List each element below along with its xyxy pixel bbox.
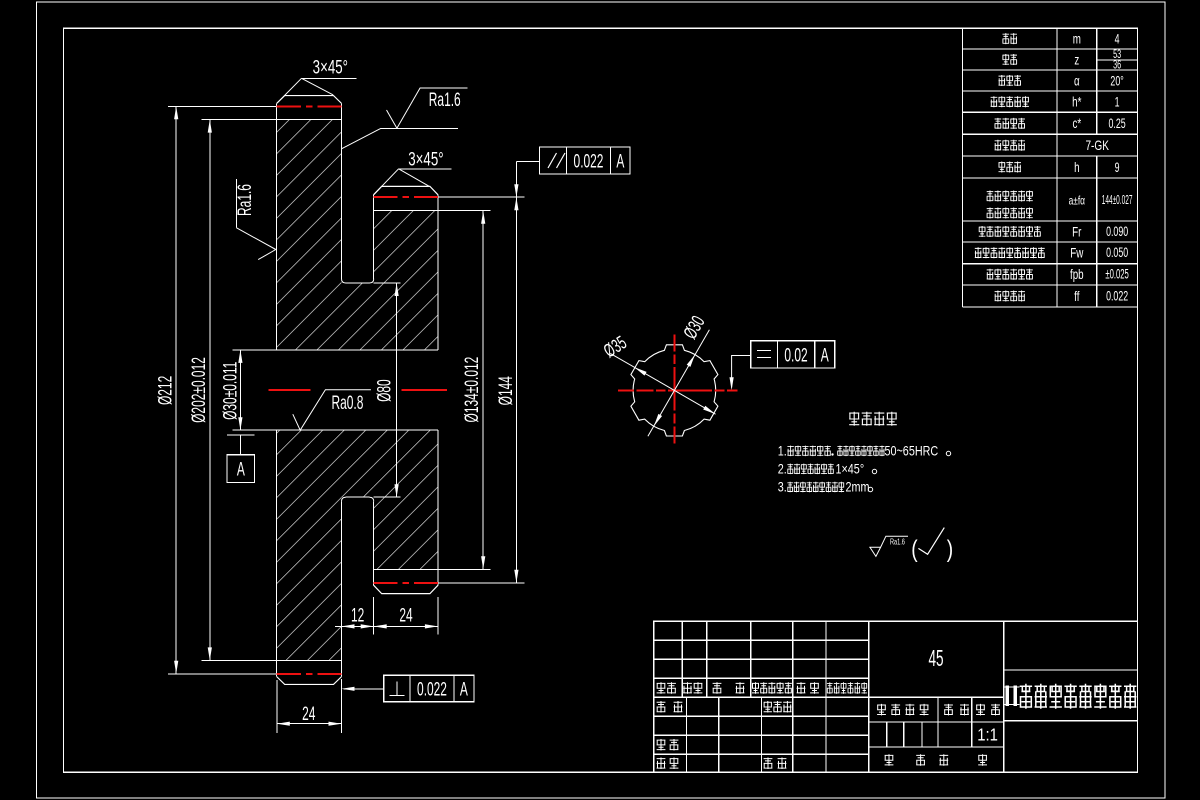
svg-text:A: A: [237, 460, 245, 480]
svg-text:Fr: Fr: [1072, 224, 1081, 240]
svg-text:Ø144: Ø144: [496, 376, 516, 405]
svg-text:2mm: 2mm: [846, 479, 870, 494]
svg-text:20°: 20°: [1110, 73, 1123, 89]
svg-text:24: 24: [302, 704, 315, 724]
svg-text:0.022: 0.022: [574, 152, 604, 172]
svg-text:3×45°: 3×45°: [408, 149, 443, 170]
svg-text:Ø202±0.012: Ø202±0.012: [189, 357, 209, 423]
svg-text:fpb: fpb: [1070, 266, 1084, 282]
svg-text:α: α: [1074, 73, 1080, 89]
svg-text:Ø35: Ø35: [601, 333, 631, 362]
svg-text:0.25: 0.25: [1109, 116, 1127, 132]
svg-text:1: 1: [1115, 95, 1120, 111]
svg-text:24: 24: [399, 606, 412, 626]
svg-text:ff: ff: [1074, 288, 1080, 304]
svg-text:A: A: [821, 346, 829, 366]
svg-text:4: 4: [1115, 31, 1120, 47]
svg-text:7-GK: 7-GK: [1085, 137, 1109, 153]
svg-text:m: m: [1073, 31, 1081, 47]
svg-text:0.02: 0.02: [784, 346, 807, 366]
svg-text:3×45°: 3×45°: [313, 57, 348, 78]
svg-text:Fw: Fw: [1070, 245, 1083, 261]
svg-text:12: 12: [351, 606, 364, 626]
svg-text:45: 45: [928, 646, 943, 672]
svg-text:a±fα: a±fα: [1069, 195, 1085, 208]
svg-text:0.090: 0.090: [1106, 224, 1128, 240]
svg-text:1.: 1.: [778, 443, 787, 458]
svg-text:0.022: 0.022: [1106, 288, 1128, 304]
svg-text:0.022: 0.022: [417, 680, 447, 700]
svg-text:): ): [947, 535, 953, 563]
svg-text:2.: 2.: [778, 461, 787, 476]
svg-text:(: (: [911, 535, 918, 563]
svg-text:Ø134±0.012: Ø134±0.012: [462, 357, 482, 423]
svg-text:A: A: [460, 680, 468, 700]
svg-text:h*: h*: [1072, 94, 1082, 110]
svg-text:144±0.027: 144±0.027: [1102, 194, 1133, 208]
svg-text:3.: 3.: [778, 479, 787, 494]
svg-text:9: 9: [1115, 160, 1120, 176]
svg-text:1:1: 1:1: [977, 725, 998, 744]
svg-text:Ø30±0.011: Ø30±0.011: [221, 362, 241, 420]
svg-text:c*: c*: [1072, 115, 1081, 131]
svg-text:50~65HRC: 50~65HRC: [885, 443, 939, 458]
svg-text:0.050: 0.050: [1106, 245, 1128, 261]
svg-text:Ø80: Ø80: [375, 379, 395, 402]
svg-text:36: 36: [1113, 59, 1121, 72]
svg-text:Ra0.8: Ra0.8: [332, 393, 364, 413]
svg-text:±0.025: ±0.025: [1105, 267, 1128, 282]
svg-text:h: h: [1074, 159, 1079, 175]
svg-text:z: z: [1074, 52, 1079, 68]
svg-text:Ø212: Ø212: [156, 376, 176, 405]
svg-text:Ra1.6: Ra1.6: [235, 184, 255, 216]
svg-text:A: A: [616, 152, 624, 172]
svg-text:1×45°: 1×45°: [836, 461, 865, 476]
svg-text:Ra1.6: Ra1.6: [429, 90, 461, 110]
svg-text:Ra1.6: Ra1.6: [890, 539, 905, 547]
